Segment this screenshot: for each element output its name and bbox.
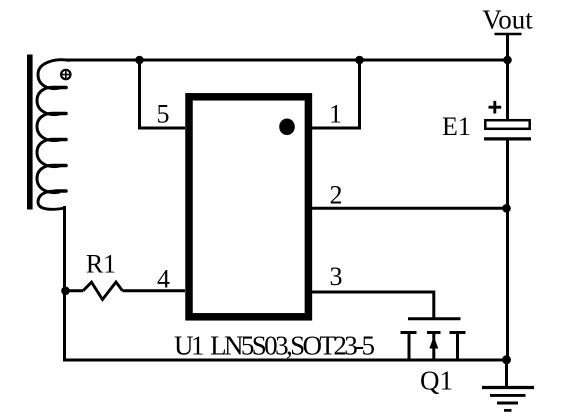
Q1 source contact [401, 333, 417, 362]
wire pin5 [140, 60, 186, 128]
wire pin3 to gate [312, 292, 434, 318]
svg-text:2: 2 [330, 181, 343, 210]
svg-text:5: 5 [157, 100, 170, 129]
inductor winding L1 [37, 60, 70, 210]
capacitor E1 positive plate [485, 120, 529, 129]
svg-text:U1 LN5S03,SOT23-5: U1 LN5S03,SOT23-5 [174, 331, 375, 361]
svg-text:3: 3 [330, 262, 343, 291]
winding crossover nubs [55, 88, 66, 192]
svg-text:1: 1 [329, 100, 342, 129]
node top-left junction [135, 56, 144, 65]
resistor R1 [83, 282, 123, 300]
capacitor E1 negative plate [484, 137, 531, 140]
wire right rail lower [506, 141, 509, 361]
wire Vout to top rail [506, 34, 509, 60]
svg-text:4: 4 [157, 265, 170, 294]
wire pin4 lead left [66, 289, 84, 292]
node Vout junction [503, 56, 512, 65]
E1 plus sign [489, 101, 502, 114]
Q1 drain contact [450, 333, 466, 362]
wire bottom rail [63, 359, 507, 362]
Q1 body contact [427, 333, 441, 362]
wire to ground [505, 360, 508, 387]
Vout terminal bar [495, 33, 522, 36]
pin 1 marker dot [279, 119, 295, 136]
svg-text:E1: E1 [442, 112, 471, 141]
transformer core bar [27, 55, 33, 210]
polarity dot [61, 70, 70, 79]
node bottom-right junction [502, 355, 511, 364]
wire coil bottom to R1 junction [63, 206, 66, 360]
node pin2 junction [502, 204, 511, 213]
wire pin1 [312, 60, 360, 128]
wire top rail [66, 59, 508, 62]
op IC U1 body [189, 97, 308, 317]
node R1 junction [61, 287, 70, 296]
wire pin4 lead right [123, 289, 186, 292]
node top-right junction [355, 56, 364, 65]
svg-text:R1: R1 [86, 250, 116, 279]
wire right rail upper [506, 60, 509, 120]
svg-text:Vout: Vout [482, 5, 533, 35]
transistor Q1 gate plate [408, 317, 461, 320]
ground [482, 388, 534, 411]
wire pin2 [312, 207, 507, 210]
Q1 body arrow [429, 337, 438, 349]
svg-text:Q1: Q1 [420, 366, 453, 396]
